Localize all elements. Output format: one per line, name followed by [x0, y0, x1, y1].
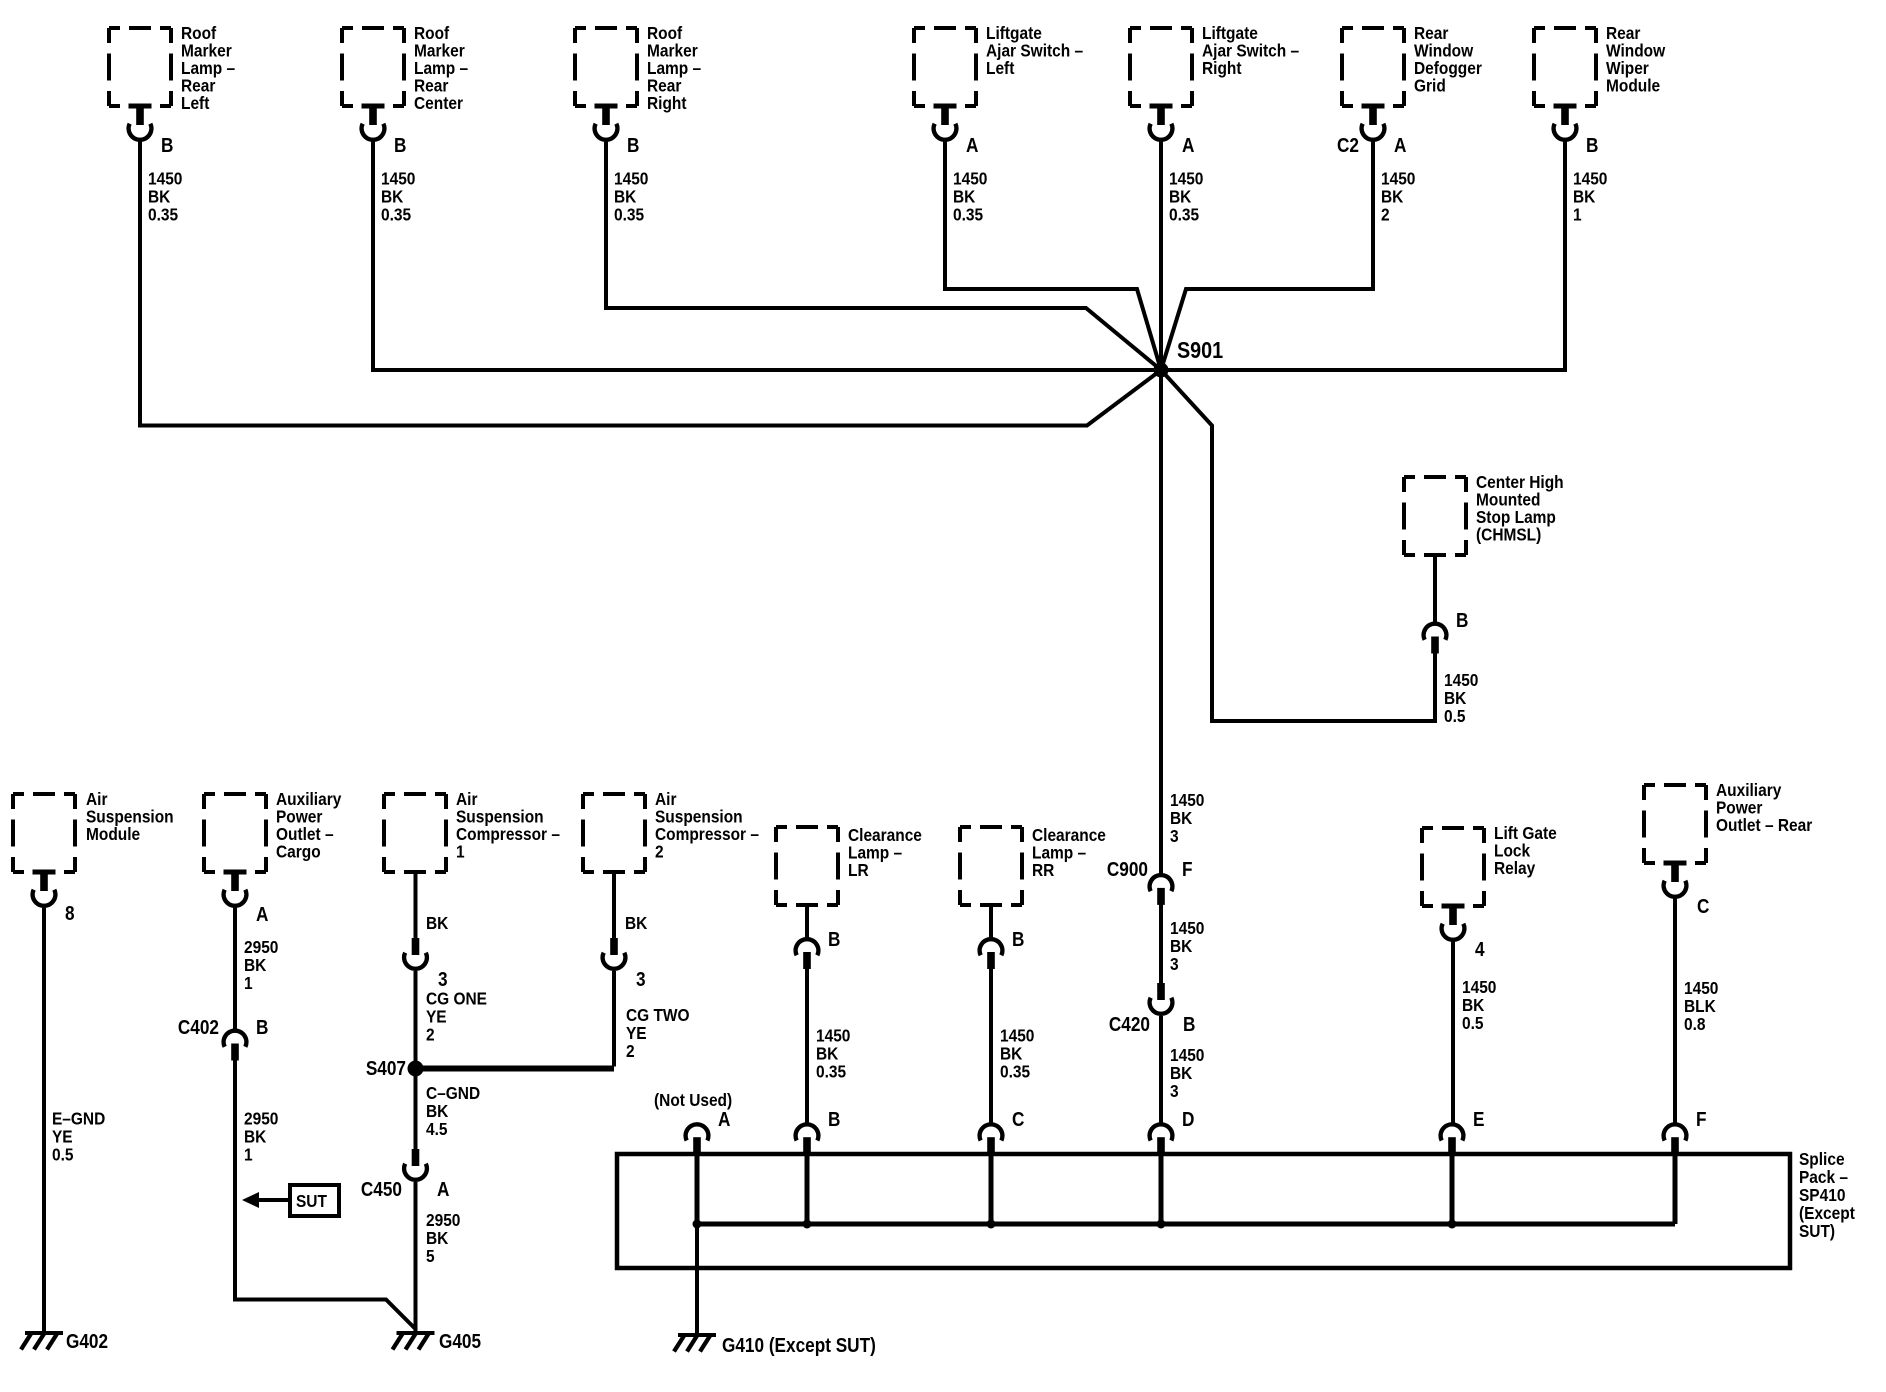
connector pin B of Roof Marker Lamp - Rear Right	[595, 104, 618, 140]
wire CHMSL lead	[1433, 555, 1437, 622]
connector pin 4 of Lift Gate Lock Relay	[1442, 904, 1465, 940]
wire label CG ONE YE 2	[426, 988, 487, 1044]
bus junction at x=1452	[1448, 1220, 1457, 1229]
splice pack internal wire pin D	[1159, 1154, 1164, 1224]
wire label C-GND BK 4.5	[426, 1083, 480, 1139]
svg-text:SUT): SUT)	[1799, 1221, 1835, 1241]
label G410 (Except SUT)	[722, 1334, 876, 1357]
wire 2950 BK 1 C402 to G405	[235, 1059, 416, 1329]
svg-text:LR: LR	[848, 860, 869, 880]
svg-text:Relay: Relay	[1494, 858, 1536, 878]
wire 1450 BK 0.5 CHMSL to S901	[1161, 370, 1435, 721]
label Liftgate Ajar Switch - Left	[986, 23, 1083, 78]
wire 1450 BK 3 S901 to C900	[1159, 370, 1163, 874]
component box Liftgate Ajar Switch - Right	[1130, 28, 1192, 106]
svg-text:C402: C402	[178, 1016, 219, 1039]
svg-text:C420: C420	[1109, 1013, 1150, 1036]
label Liftgate Ajar Switch - Right	[1202, 23, 1299, 78]
svg-text:A: A	[256, 903, 268, 926]
pin letter B	[1183, 1013, 1195, 1036]
designator C900	[1107, 858, 1148, 881]
label G405	[439, 1330, 481, 1353]
wire label 1450 BK 3	[1170, 1045, 1204, 1101]
pin letter A	[966, 134, 978, 157]
wire label 1450 BK 0.5	[1444, 670, 1478, 726]
svg-text:5: 5	[426, 1246, 435, 1266]
component box Rear Window Wiper Module	[1534, 28, 1596, 106]
wire 2950 BK 5 C450 to G405	[414, 1182, 418, 1331]
svg-text:(CHMSL): (CHMSL)	[1476, 524, 1541, 544]
splice pack internal wire pin C	[989, 1154, 994, 1224]
svg-text:B: B	[1586, 134, 1598, 157]
svg-text:2: 2	[1381, 204, 1390, 224]
svg-text:4: 4	[1475, 938, 1485, 961]
wire 1450 BK 1 Rear Wiper to S901	[1168, 140, 1565, 370]
svg-text:C: C	[1697, 895, 1709, 918]
component box Auxiliary Power Outlet - Rear	[1644, 785, 1706, 863]
svg-text:0.35: 0.35	[148, 204, 178, 224]
svg-text:A: A	[437, 1178, 449, 1201]
label Air Suspension Module	[86, 789, 174, 844]
splice pack connector pin D	[1150, 1124, 1173, 1154]
svg-text:A: A	[1394, 134, 1406, 157]
wire label 1450 BK 0.5	[1462, 977, 1496, 1033]
pin letter C	[1697, 895, 1709, 918]
component box Air Suspension Compressor - 1	[384, 794, 446, 872]
component box Air Suspension Compressor - 2	[583, 794, 645, 872]
connector pin A of Liftgate Ajar Switch - Right	[1150, 104, 1173, 140]
splice S407	[408, 1061, 424, 1077]
wire 1450 BK 3 C900 to C420	[1159, 904, 1163, 984]
svg-text:BK: BK	[426, 913, 448, 933]
svg-text:C900: C900	[1107, 858, 1148, 881]
wire label 1450 BK 0.35	[1000, 1025, 1034, 1081]
wire 1450 BK 2 Rear Defogger to S901	[1161, 140, 1373, 370]
wire splice pack pin A to G410	[695, 1224, 699, 1333]
svg-text:B: B	[1012, 928, 1024, 951]
svg-text:B: B	[1183, 1013, 1195, 1036]
svg-text:C450: C450	[361, 1178, 402, 1201]
wire Clearance Lamp LR lead	[805, 905, 809, 938]
wire label 1450 BLK 0.8	[1684, 978, 1718, 1034]
svg-text:0.35: 0.35	[1000, 1061, 1030, 1081]
splice pack internal wire pin F	[1673, 1154, 1678, 1224]
component box Auxiliary Power Outlet - Cargo	[204, 794, 266, 872]
connector pin B of Roof Marker Lamp - Rear Center	[362, 104, 385, 140]
wire label 1450 BK 0.35	[1169, 168, 1203, 224]
connector pin B of Roof Marker Lamp - Rear Left	[129, 104, 152, 140]
wire CG ONE YE 2 to S407	[414, 971, 418, 1069]
component box Center High Mounted Stop Lamp (CHMSL)	[1404, 477, 1466, 555]
bus junction at x=1161	[1157, 1220, 1166, 1229]
wire label 2950 BK 5	[426, 1210, 460, 1266]
label Rear Window Defogger Grid	[1414, 23, 1482, 96]
svg-text:0.35: 0.35	[953, 204, 983, 224]
svg-text:0.35: 0.35	[614, 204, 644, 224]
component box Clearance Lamp - RR	[960, 827, 1022, 905]
svg-text:2: 2	[626, 1041, 635, 1061]
splice pack connector pin E	[1441, 1124, 1464, 1154]
svg-text:0.8: 0.8	[1684, 1014, 1705, 1034]
pin letter B	[161, 134, 173, 157]
wire label 1450 BK 0.35	[953, 168, 987, 224]
svg-text:Right: Right	[647, 93, 687, 113]
component box Roof Marker Lamp - Rear Left	[109, 28, 171, 106]
wire 2950 BK 1 to C402	[233, 906, 237, 1030]
pin letter C	[1012, 1108, 1024, 1131]
inline connector C420 pin B	[1150, 983, 1173, 1014]
pin letter F	[1182, 858, 1193, 881]
connector pin B of Clearance Lamp RR	[980, 939, 1003, 969]
svg-text:0.35: 0.35	[816, 1061, 846, 1081]
wire E-GND YE 0.5 to G402	[42, 906, 46, 1331]
pin letter A	[718, 1108, 730, 1131]
svg-text:0.5: 0.5	[52, 1144, 73, 1164]
bus junction at x=807	[803, 1220, 812, 1229]
wire label BK	[625, 913, 647, 933]
splice pack SP410 box	[617, 1154, 1790, 1268]
svg-text:Center: Center	[414, 93, 463, 113]
splice pack connector pin F	[1664, 1124, 1687, 1154]
label Clearance Lamp - LR	[848, 825, 922, 880]
pin letter B	[1456, 609, 1468, 632]
inline connector C900 pin F	[1150, 875, 1173, 905]
svg-text:RR: RR	[1032, 860, 1054, 880]
pin letter A	[1182, 134, 1194, 157]
svg-text:SUT: SUT	[296, 1191, 328, 1211]
splice pack internal bus	[697, 1222, 1675, 1227]
svg-text:B: B	[161, 134, 173, 157]
SUT branch arrow	[242, 1192, 290, 1208]
svg-text:0.35: 0.35	[381, 204, 411, 224]
wire label 1450 BK 3	[1170, 790, 1204, 846]
pin number 8	[65, 902, 75, 925]
pin letter B	[394, 134, 406, 157]
svg-text:Module: Module	[86, 824, 140, 844]
svg-text:8: 8	[65, 902, 75, 925]
designator C420	[1109, 1013, 1150, 1036]
component box Lift Gate Lock Relay	[1422, 828, 1484, 906]
svg-text:Grid: Grid	[1414, 75, 1446, 95]
svg-text:B: B	[828, 1108, 840, 1131]
component box Roof Marker Lamp - Rear Center	[342, 28, 404, 106]
label S901	[1177, 338, 1223, 364]
splice pack internal wire pin E	[1450, 1154, 1455, 1224]
wire label E-GND YE 0.5	[52, 1108, 105, 1164]
pin letter B	[1012, 928, 1024, 951]
wire label 1450 BK 0.35	[614, 168, 648, 224]
wire S407 to compressor 2	[416, 1066, 615, 1072]
svg-text:F: F	[1696, 1108, 1707, 1131]
svg-text:C2: C2	[1337, 134, 1359, 157]
svg-text:S407: S407	[366, 1057, 406, 1080]
connector pin B of Rear Window Wiper Module	[1554, 104, 1577, 140]
splice pack connector pin B	[796, 1124, 819, 1154]
component box Liftgate Ajar Switch - Left	[914, 28, 976, 106]
pin number 3	[636, 968, 646, 991]
pin letter A	[437, 1178, 449, 1201]
svg-text:0.5: 0.5	[1462, 1013, 1483, 1033]
bus junction at x=991	[987, 1220, 996, 1229]
wire 1450 BLK 0.8 to splice pack pin F	[1673, 897, 1677, 1123]
designator C402	[178, 1016, 219, 1039]
splice pack internal wire pin A	[695, 1154, 700, 1224]
svg-text:BK: BK	[625, 913, 647, 933]
ground G410	[674, 1333, 716, 1352]
svg-text:Compressor –: Compressor –	[456, 824, 560, 844]
svg-text:G410 (Except SUT): G410 (Except SUT)	[722, 1334, 876, 1357]
designator S407	[366, 1057, 406, 1080]
label Lift Gate Lock Relay	[1494, 823, 1557, 878]
SUT tag box	[290, 1185, 339, 1216]
wire CG TWO YE 2 to S407	[612, 971, 616, 1067]
ground G402	[21, 1331, 63, 1350]
svg-text:F: F	[1182, 858, 1193, 881]
wire label 1450 BK 0.35	[816, 1025, 850, 1081]
connector pin A of Liftgate Ajar Switch - Left	[934, 104, 957, 140]
wire Clearance Lamp RR lead	[989, 905, 993, 938]
splice pack connector pin C	[980, 1124, 1003, 1154]
wire 1450 BK 0.35 Liftgate Ajar Left to S901	[945, 140, 1161, 370]
pin number 4	[1475, 938, 1485, 961]
svg-text:0.35: 0.35	[1169, 204, 1199, 224]
label Roof Marker Lamp - Rear Left	[181, 23, 235, 113]
svg-text:B: B	[256, 1016, 268, 1039]
svg-text:G405: G405	[439, 1330, 481, 1353]
splice pack connector pin A	[686, 1124, 709, 1154]
svg-text:Left: Left	[986, 58, 1015, 78]
pin number 3	[438, 968, 448, 991]
wire label 2950 BK 1	[244, 937, 278, 993]
svg-text:Outlet – Rear: Outlet – Rear	[1716, 815, 1813, 835]
pin letter B	[627, 134, 639, 157]
svg-text:2: 2	[655, 841, 664, 861]
ground G405	[393, 1331, 435, 1350]
wire 1450 BK 0.5 to splice pack pin E	[1451, 940, 1455, 1123]
splice S901	[1154, 363, 1169, 378]
wire label 1450 BK 0.35	[381, 168, 415, 224]
label G402	[66, 1330, 108, 1353]
wire C-GND BK 4.5 S407 to C450	[414, 1069, 418, 1150]
pin letter B	[828, 928, 840, 951]
pin letter E	[1473, 1108, 1484, 1131]
label Auxiliary Power Outlet - Cargo	[276, 789, 342, 862]
connector pin A of Aux Power Outlet Cargo	[224, 870, 247, 906]
wire 1450 BK 0.35 Roof Marker Rear Center to S901	[373, 140, 1154, 370]
svg-text:1: 1	[244, 973, 253, 993]
svg-text:1: 1	[456, 841, 465, 861]
label Air Suspension Compressor - 2	[655, 789, 759, 862]
label CHMSL	[1476, 472, 1564, 545]
svg-text:Compressor –: Compressor –	[655, 824, 759, 844]
wire 1450 BK 0.35 Roof Marker Rear Left to S901	[140, 140, 1161, 426]
svg-text:A: A	[966, 134, 978, 157]
pin letter A	[256, 903, 268, 926]
svg-text:C: C	[1012, 1108, 1024, 1131]
component box Clearance Lamp - LR	[776, 827, 838, 905]
svg-text:G402: G402	[66, 1330, 108, 1353]
svg-text:3: 3	[636, 968, 646, 991]
svg-text:B: B	[1456, 609, 1468, 632]
inline connector C402 pin B	[224, 1031, 247, 1061]
svg-text:2: 2	[426, 1024, 435, 1044]
svg-text:1: 1	[244, 1144, 253, 1164]
svg-text:Cargo: Cargo	[276, 841, 321, 861]
wire 1450 BK 3 C420 to splice pack pin D	[1159, 1016, 1163, 1123]
wire label 1450 BK 0.35	[148, 168, 182, 224]
wire label CG TWO YE 2	[626, 1005, 690, 1061]
svg-text:3: 3	[1170, 1081, 1179, 1101]
component box Rear Window Defogger Grid	[1342, 28, 1404, 106]
pin letter B	[1586, 134, 1598, 157]
wire BK compressor 1 lead	[414, 872, 418, 938]
designator C2 (Rear Window Defogger Grid connector)	[1337, 134, 1359, 157]
wire 1450 BK 0.35 to splice pack pin C	[989, 969, 993, 1124]
pin letter F	[1696, 1108, 1707, 1131]
label Air Suspension Compressor - 1	[456, 789, 560, 862]
component box Air Suspension Module	[13, 794, 75, 872]
wire 1450 BK 0.35 Liftgate Ajar Right to S901	[1159, 140, 1163, 370]
svg-text:Module: Module	[1606, 75, 1660, 95]
wire label 1450 BK 3	[1170, 918, 1204, 974]
inline connector C450 pin A	[404, 1149, 427, 1180]
label (Not Used)	[654, 1090, 732, 1110]
svg-text:A: A	[1182, 134, 1194, 157]
label Roof Marker Lamp - Rear Center	[414, 23, 468, 113]
wire label BK	[426, 913, 448, 933]
svg-text:A: A	[718, 1108, 730, 1131]
label Roof Marker Lamp - Rear Right	[647, 23, 701, 113]
svg-text:3: 3	[1170, 954, 1179, 974]
svg-text:Left: Left	[181, 93, 210, 113]
svg-text:3: 3	[438, 968, 448, 991]
label Splice Pack - SP410 (Except SUT)	[1799, 1149, 1855, 1241]
connector pin C of Aux Power Outlet Rear	[1664, 861, 1687, 897]
wire label 2950 BK 1	[244, 1108, 278, 1164]
wire 1450 BK 0.35 to splice pack pin B	[805, 969, 809, 1124]
pin letter D	[1182, 1108, 1194, 1131]
svg-text:B: B	[627, 134, 639, 157]
svg-text:B: B	[828, 928, 840, 951]
inline connector pin 3 of compressor 1	[404, 938, 427, 969]
connector pin A of Rear Window Defogger Grid	[1362, 104, 1385, 140]
connector pin B of CHMSL	[1424, 624, 1447, 654]
svg-text:B: B	[394, 134, 406, 157]
label Rear Window Wiper Module	[1606, 23, 1666, 96]
inline connector pin 3 of compressor 2	[603, 938, 626, 969]
pin letter A	[1394, 134, 1406, 157]
svg-text:Right: Right	[1202, 58, 1242, 78]
label Auxiliary Power Outlet - Rear	[1716, 780, 1813, 835]
connector pin B of Clearance Lamp LR	[796, 939, 819, 969]
svg-text:E: E	[1473, 1108, 1484, 1131]
svg-text:1: 1	[1573, 204, 1582, 224]
svg-text:D: D	[1182, 1108, 1194, 1131]
svg-text:0.5: 0.5	[1444, 706, 1465, 726]
label Clearance Lamp - RR	[1032, 825, 1106, 880]
pin letter B	[828, 1108, 840, 1131]
designator C450	[361, 1178, 402, 1201]
bus junction at x=697	[693, 1220, 702, 1229]
component box Roof Marker Lamp - Rear Right	[575, 28, 637, 106]
wire label 1450 BK 2	[1381, 168, 1415, 224]
svg-text:4.5: 4.5	[426, 1119, 447, 1139]
splice pack internal wire pin B	[805, 1154, 810, 1224]
connector pin 8 of Air Suspension Module	[33, 870, 56, 906]
wire 1450 BK 0.35 Roof Marker Rear Right to S901	[606, 140, 1161, 370]
svg-text:S901: S901	[1177, 338, 1223, 364]
svg-text:3: 3	[1170, 826, 1179, 846]
wire label 1450 BK 1	[1573, 168, 1607, 224]
pin letter B	[256, 1016, 268, 1039]
wire BK compressor 2 lead	[612, 872, 616, 938]
